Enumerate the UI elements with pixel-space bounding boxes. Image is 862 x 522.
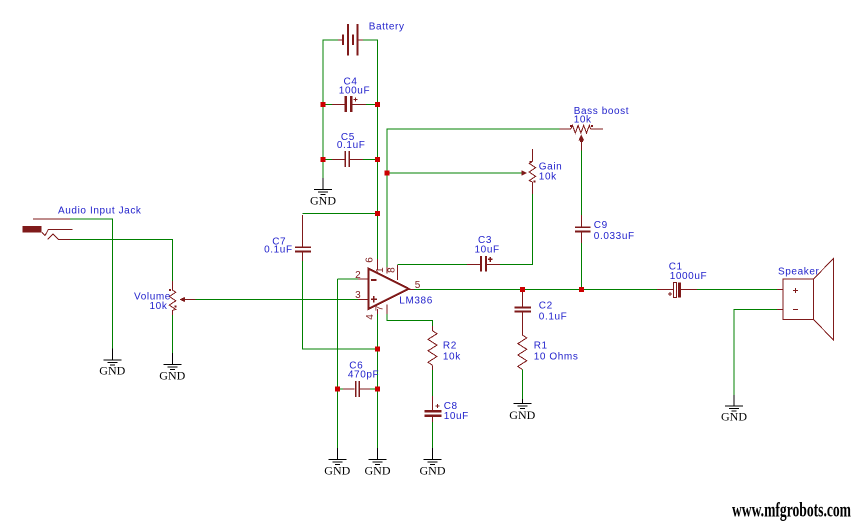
pin number 1 [375,267,386,273]
ground GND pin2 rail [324,448,350,478]
svg-text:Battery: Battery [369,22,405,33]
label C5 value [337,132,366,151]
wire C7 top run [302,213,377,215]
resistor R2 [428,326,437,370]
svg-text:1: 1 [375,267,386,273]
wire battery right rail [363,40,378,259]
capacitor C7 [295,215,311,261]
capacitor C1 [657,282,697,297]
capacitor C4 [332,96,366,112]
pin number 5 [415,280,421,291]
wire bass wiper down to C9 [580,151,582,216]
svg-text:8: 8 [387,267,398,273]
svg-text:LM386: LM386 [399,296,433,307]
svg-text:470pF: 470pF [348,370,379,381]
label C7 value [264,237,293,256]
junction C6 left [335,387,340,392]
wire C8 to ground [432,422,434,448]
svg-text:R2: R2 [443,340,457,351]
svg-text:10k: 10k [539,171,557,182]
wire pin7 run to R2 [387,314,432,326]
capacitor C8 [425,396,442,422]
audio input jack J1 [22,219,72,239]
svg-text:0.1uF: 0.1uF [264,245,293,256]
svg-text:C9: C9 [594,220,608,231]
ground GND jack [99,349,125,378]
svg-text:Audio Input Jack: Audio Input Jack [58,206,142,217]
junction C5 left [321,157,326,162]
junction gain wiper [385,171,390,176]
ground GND speaker [721,395,747,423]
junction C7 bottom [375,347,380,352]
wire pin1 vertical to bass boost [387,129,560,267]
capacitor C3 [467,256,500,272]
label Gain value [539,161,563,182]
svg-text:10k: 10k [574,115,592,126]
junction C5 right [375,157,380,162]
wire C1 to speaker [697,288,777,290]
wire pin4 rail [377,314,379,448]
label Bass boost value [574,106,629,126]
pin number 3 [355,290,361,301]
junction C2 output [520,287,525,292]
label C2 value [539,301,568,323]
label C1 value [669,261,708,282]
svg-text:100uF: 100uF [339,86,370,97]
svg-text:GND: GND [324,464,350,478]
wire jack tip to volume [70,239,172,281]
potentiometer Volume [169,281,195,315]
potentiometer Bass boost [560,125,603,151]
svg-text:Speaker: Speaker [778,267,820,278]
wire output run [414,288,657,290]
wire C6 right stub [370,388,378,390]
svg-text:1000uF: 1000uF [670,271,708,282]
wire volume bottom to ground [171,315,173,353]
watermark www.mfgrobots.com [732,497,851,521]
svg-text:10uF: 10uF [444,411,469,422]
label Volume value [134,292,171,313]
svg-text:7: 7 [375,305,386,311]
svg-text:0.033uF: 0.033uF [594,231,635,242]
svg-text:4: 4 [365,314,376,320]
label C6 value [348,361,379,381]
svg-text:R1: R1 [534,341,548,352]
pin number 2 [355,270,361,281]
svg-text:GND: GND [509,408,535,422]
battery B1 [338,24,363,56]
ground GND C8 [420,448,446,478]
svg-text:GND: GND [365,464,391,478]
capacitor C5 [332,151,363,167]
svg-text:6: 6 [364,257,375,263]
label Audio Input Jack [58,206,142,217]
junction C6 right [375,387,380,392]
label Speaker [778,267,820,278]
resistor R1 [518,330,527,370]
label C3 value [475,235,500,255]
junction C7 top [375,211,380,216]
wire pin2 rail [337,279,358,448]
svg-text:GND: GND [159,369,185,383]
svg-text:10uF: 10uF [475,244,500,255]
svg-text:0.1uF: 0.1uF [337,140,366,151]
svg-text:0.1uF: 0.1uF [539,312,568,323]
svg-text:10k: 10k [443,351,461,362]
ground GND R1 [509,399,535,422]
ground GND pin4 rail [365,448,391,478]
wire C7 bottom run [302,261,377,349]
wire C4 row left [323,104,332,106]
capacitor C6 [343,381,370,397]
svg-text:GND: GND [721,409,747,423]
label R1 value [534,341,579,363]
junction C4 left [321,102,326,107]
wire speaker minus to ground [734,309,777,395]
speaker LS1 [777,259,834,341]
pin number 4 [365,314,376,320]
svg-text:www.mfgrobots.com: www.mfgrobots.com [732,497,851,521]
wire R1 to ground [521,370,523,400]
wire pin8 to C3 [397,263,467,265]
wire C4 row right [366,104,378,106]
wire C9 down to output [580,243,582,289]
wire C6 left stub [337,388,343,390]
junction C4 right [375,102,380,107]
wire jack sleeve to ground [70,219,112,349]
svg-text:10k: 10k [150,301,168,312]
svg-text:GND: GND [310,193,336,207]
label Battery [369,22,405,33]
ground GND battery rail [310,178,336,207]
wire gain bottom to C3 [500,194,532,264]
label LM386 [399,296,433,307]
wire C5 row left [323,159,332,161]
pin number 7 [375,305,386,311]
wire R2 to C8 [432,370,434,396]
op-amp U1 LM386 [358,259,414,314]
label C9 value [594,220,635,242]
capacitor C2 [515,289,531,330]
label C8 value [444,401,469,422]
wire volume wiper to pin3 [196,299,359,301]
pin number 6 [364,257,375,263]
svg-text:10 Ohms: 10 Ohms [534,351,579,362]
pin number 8 [387,267,398,273]
label C4 value [339,77,370,97]
wire battery left rail [323,40,338,178]
ground GND volume [159,353,185,383]
svg-text:GND: GND [99,364,125,378]
svg-text:C2: C2 [539,301,553,312]
label R2 value [443,340,461,362]
potentiometer Gain [522,149,536,194]
wire C5 row right [363,159,378,161]
junction C9 output [579,287,584,292]
svg-text:GND: GND [420,464,446,478]
wire gain wiper run [387,172,522,174]
capacitor C9 [575,215,591,243]
